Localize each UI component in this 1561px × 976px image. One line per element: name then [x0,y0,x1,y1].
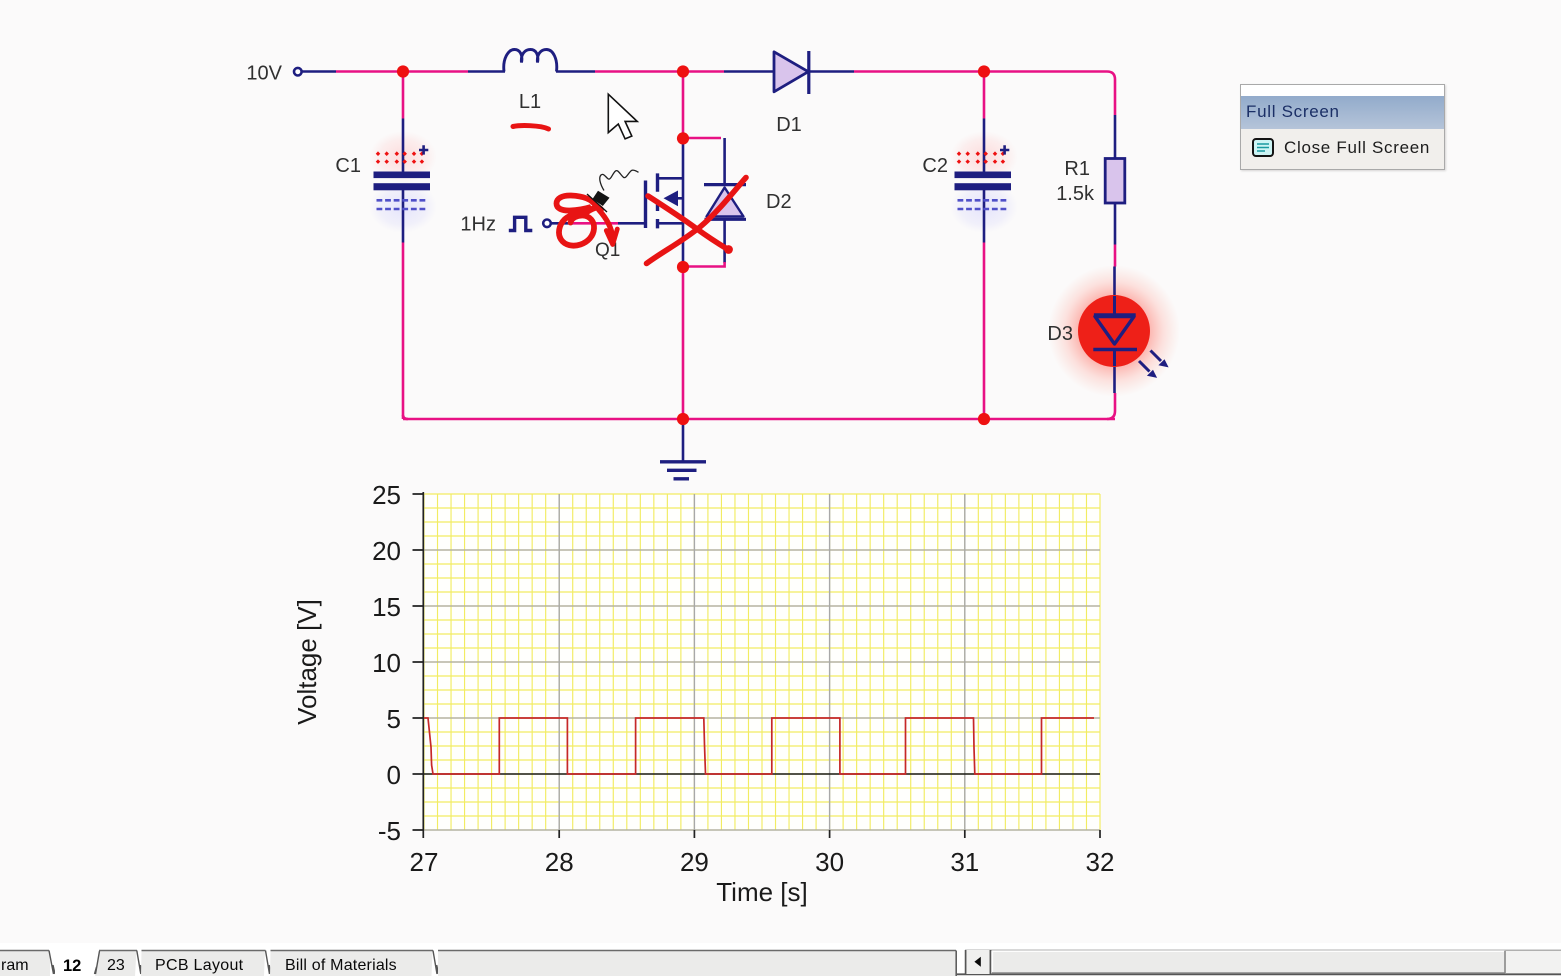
diode D1 leads (navy) [724,70,854,73]
annotation: red X cross stroke 1 [647,178,747,264]
svg-text:29: 29 [680,847,709,877]
terminal: 10V input pin [294,68,302,76]
label L1 [519,91,541,113]
svg-text:R1: R1 [1064,158,1090,180]
svg-text:L1: L1 [519,91,541,113]
wire: C1 branch top (pink) [402,72,405,119]
svg-text:1.5k: 1.5k [1056,183,1095,205]
label C2 [922,155,948,177]
wire: C2 branch top (pink) [983,72,986,119]
node junction 7 [978,413,990,425]
svg-text:27: 27 [410,847,439,877]
plot major grid (gray) [424,494,1100,830]
wire: D2 bottom connector (pink) [687,262,725,267]
svg-text:0: 0 [387,760,401,790]
ground symbol [660,419,706,479]
wire: top rail right (pink, corner down to R1 branch) [854,72,1115,116]
plot zero axis (black) [424,773,1100,775]
tab Circuit Diagram (partial) [0,951,55,976]
wire: R1 bottom lead (navy) [1114,203,1117,245]
annotation: black pen nib [587,170,639,212]
horizontal scrollbar [957,948,1561,976]
svg-text:Time [s]: Time [s] [716,877,807,907]
node junction 5 [677,261,689,273]
scrollbar left arrow button [966,950,991,974]
wire: gate input lead (navy) [552,222,574,225]
y axis line and ticks [413,492,424,838]
mouse cursor [608,94,637,139]
oscilloscope plot background [424,494,1100,830]
diode D1 [774,51,809,94]
wire: C2 bottom lead (navy) [983,189,986,243]
label D3 [1047,323,1073,345]
plot minor grid (yellow) [424,494,1100,830]
menu item Full Screen (highlighted) [1241,96,1444,129]
inductor L1 pins (navy) [468,70,595,73]
svg-text:25: 25 [372,480,401,510]
capacitor C1 glow [369,131,437,233]
menu item Close Full Screen [1241,129,1444,168]
svg-text:D2: D2 [766,191,792,213]
svg-text:Q1: Q1 [595,240,620,261]
capacitor C1 [374,145,431,209]
annotation: red X cross stroke 2 [648,196,733,254]
wire: 10V terminal lead (navy) [302,70,336,73]
label 1Hz [460,214,496,236]
axis label Voltage [V] [292,599,322,725]
label Q1 [595,240,620,261]
LED D3 glow [1048,265,1180,397]
pulse waveform glyph [509,217,533,230]
wire: R1 top lead (navy) [1114,115,1117,159]
svg-text:10V: 10V [246,63,282,85]
svg-text:-5: -5 [378,816,401,846]
diode D2 (body diode) [704,185,746,220]
bottom rail (pink) [403,243,1115,420]
svg-text:Voltage [V]: Voltage [V] [292,599,322,725]
capacitor C2 glow [950,131,1018,233]
svg-text:D1: D1 [776,114,802,136]
transistor Q1 (NMOS) [646,173,684,228]
wire: gate lead to MOSFET (navy) [618,222,644,225]
inductor L1 coil [504,50,557,72]
capacitor C2 [955,145,1012,209]
tab strip remainder [438,951,956,976]
context menu Full Screen [1240,84,1445,170]
wire: D2 top connector (pink) [683,137,721,140]
resistor R1 [1105,159,1125,204]
wire: C2 branch bottom (pink) [983,243,986,420]
node junction 2 [677,65,689,77]
svg-text:28: 28 [545,847,574,877]
wire: MOSFET branch from top rail (pink) [682,72,685,139]
wire: C1 top lead (navy) [402,119,405,173]
svg-text:C1: C1 [335,155,361,177]
node junction 4 [677,132,689,144]
svg-text:C2: C2 [922,155,948,177]
svg-text:20: 20 [372,536,401,566]
wire: C1 branch bottom (pink) [402,243,405,420]
svg-text:D3: D3 [1047,323,1073,345]
label R1 value [1056,158,1095,205]
axis label Time [s] [716,877,807,907]
bottom tab bar [0,943,1561,976]
LED D3 light arrows [1139,351,1169,378]
annotation: red arrow [599,210,617,245]
tab Bill of Materials [270,951,439,976]
wire: top rail middle (pink) [595,70,724,73]
label D2 [766,191,792,213]
wire: C1 bottom lead (navy) [402,189,405,243]
svg-text:10: 10 [372,648,401,678]
x axis labels [410,847,1115,877]
wire: MOSFET branch to bottom rail (pink) [682,267,685,419]
x axis ticks [559,830,1100,838]
wire: MOSFET drain/source vertical (navy) [682,138,685,267]
label D1 [776,114,802,136]
node junction 6 [677,413,689,425]
svg-text:15: 15 [372,592,401,622]
label C1 [335,155,361,177]
tab 12 (active, white) [55,951,93,976]
svg-text:1Hz: 1Hz [460,214,496,236]
tab PCB Layout [141,951,271,976]
LED D3 [1078,295,1150,367]
wire: top rail left (pink) [336,70,468,73]
node junction 1 [397,65,409,77]
tab 23 [95,951,143,976]
wire: D3 bottom lead (navy) [1113,350,1116,394]
terminal: 1Hz input pin [543,220,551,228]
annotation: red dash under L1 [513,126,549,129]
wire: gate wire (pink) [573,222,618,225]
svg-text:30: 30 [815,847,844,877]
voltage trace (red square wave) [424,718,1094,774]
svg-text:31: 31 [950,847,979,877]
wire: bottom rail left corner (pink) [403,415,408,419]
scrollbar thumb [992,951,1506,974]
y axis labels [372,480,401,846]
wire: R1/D3 branch bottom (pink corner) [1107,393,1115,419]
svg-text:5: 5 [387,704,401,734]
wire: D2 cathode lead (navy) [723,138,726,185]
wire: D3 top lead (navy) [1113,267,1116,316]
wire: R1-D3 link (pink) [1114,245,1117,267]
wire: D2 anode lead (navy) [723,219,726,263]
annotation: red loop scribble at gate [557,195,602,245]
node junction 3 [978,65,990,77]
wire: C2 top lead (navy) [983,119,986,173]
label 10V [246,63,282,85]
svg-text:32: 32 [1086,847,1115,877]
